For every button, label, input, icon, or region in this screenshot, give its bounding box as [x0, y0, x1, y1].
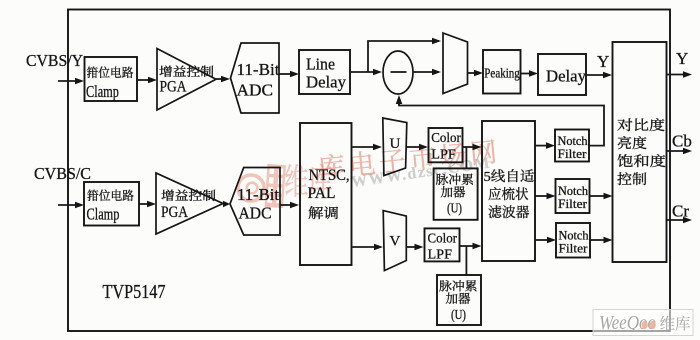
svg-text:(U): (U) — [451, 308, 466, 323]
block 11-Bit ADC (luma) — [231, 43, 280, 113]
block Color LPF (U) — [429, 128, 463, 163]
wire Cr output arrow — [667, 217, 693, 224]
wire Cb output arrow — [667, 148, 693, 155]
svg-text:V: V — [390, 234, 401, 250]
svg-text:加器: 加器 — [441, 183, 466, 201]
wire ADC1 to Line Delay — [279, 71, 299, 78]
svg-text:Y: Y — [676, 49, 688, 68]
amplifier PGA (chroma) 增益控制 — [156, 173, 223, 234]
block NTSC PAL demodulator 解调 — [300, 123, 352, 265]
wire Delay to contrast block — [586, 72, 612, 79]
svg-text:对比度: 对比度 — [617, 115, 665, 135]
svg-text:滤波器: 滤波器 — [488, 202, 530, 222]
watermark WeeQoo box — [593, 310, 693, 336]
wire junction drop to burst accumulator U — [465, 147, 467, 168]
wire PGA2 to ADC2 — [223, 201, 230, 208]
svg-text:PGA: PGA — [160, 79, 187, 96]
amplifier PGA (luma) 增益控制 — [157, 49, 216, 111]
svg-text:Peaking: Peaking — [484, 66, 520, 81]
svg-text:CVBS/Y: CVBS/Y — [26, 51, 83, 70]
wire Color LPF V to comb filter — [460, 243, 482, 250]
svg-text:Cb: Cb — [672, 132, 692, 151]
svg-text:Filter: Filter — [559, 241, 589, 256]
svg-text:TVP5147: TVP5147 — [103, 281, 166, 303]
svg-text:LPF: LPF — [428, 248, 453, 263]
svg-text:箝位电路: 箝位电路 — [87, 186, 134, 204]
wire CVBS/C input arrow — [58, 202, 84, 209]
mux (luma select) — [443, 33, 468, 94]
svg-text:Clamp: Clamp — [87, 205, 120, 224]
svg-text:CVBS/C: CVBS/C — [34, 164, 91, 183]
wire subtractor to mux — [413, 69, 441, 76]
svg-text:饱和度: 饱和度 — [617, 151, 666, 171]
svg-text:PAL: PAL — [308, 185, 336, 202]
wire Notch3 to contrast block — [590, 237, 613, 244]
svg-text:5线自适: 5线自适 — [484, 166, 535, 186]
svg-text:箝位电路: 箝位电路 — [87, 63, 134, 81]
svg-text:Color: Color — [431, 131, 461, 146]
svg-text:Color: Color — [428, 232, 458, 247]
wire NTSC to U demod — [352, 144, 383, 151]
svg-text:LPF: LPF — [431, 148, 456, 163]
svg-text:Line: Line — [306, 55, 335, 74]
wire U to Color LPF (U) — [407, 144, 428, 151]
svg-text:NTSC,: NTSC, — [309, 167, 350, 184]
block Notch Filter 3 — [556, 223, 590, 258]
svg-text:Filter: Filter — [558, 146, 588, 161]
block pulse accumulator U 脉冲累加器 — [434, 168, 478, 219]
block Notch Filter 1 — [555, 130, 589, 162]
svg-text:维库: 维库 — [660, 311, 691, 335]
block 11-Bit ADC (chroma) — [230, 168, 280, 236]
svg-text:WeeQoo: WeeQoo — [599, 312, 656, 334]
svg-text:11-Bit: 11-Bit — [237, 60, 280, 79]
block Delay — [538, 54, 586, 95]
wire CVBS/Y input arrow — [58, 78, 84, 85]
wire mux to Peaking — [468, 70, 484, 77]
block contrast brightness saturation control 对比度亮度饱和度控制 — [613, 42, 667, 262]
wire Notch2 to contrast block — [590, 193, 613, 200]
svg-text:应梳状: 应梳状 — [488, 184, 529, 204]
svg-text:ADC: ADC — [237, 81, 274, 100]
svg-text:增益控制: 增益控制 — [161, 186, 216, 204]
wire comb to Notch 3 — [535, 237, 556, 244]
svg-text:Filter: Filter — [558, 196, 588, 211]
wire Y output arrow — [667, 71, 693, 78]
mixer V — [383, 211, 406, 271]
svg-text:Delay: Delay — [306, 73, 346, 92]
wire comb to Notch 2 — [535, 193, 556, 200]
wire ADC2 to NTSC demod — [280, 202, 299, 209]
block Color LPF (V) — [425, 228, 460, 262]
subtractor node (minus circle) — [383, 51, 413, 94]
svg-text:Y: Y — [597, 52, 609, 71]
wire V to Color LPF (V) — [406, 244, 423, 251]
wire Line Delay to subtractor — [350, 69, 382, 76]
wire clamp1 to PGA1 — [137, 77, 157, 84]
wire bypass branch to mux top — [368, 41, 439, 72]
svg-text:加器: 加器 — [446, 289, 471, 307]
watermark stamp film strip — [265, 164, 286, 208]
svg-text:ADC: ADC — [239, 204, 272, 223]
svg-text:Clamp: Clamp — [86, 82, 119, 101]
svg-text:Cr: Cr — [672, 202, 689, 221]
wire clamp2 to PGA2 — [139, 201, 156, 208]
svg-text:增益控制: 增益控制 — [159, 62, 214, 80]
wire Color LPF U to comb filter — [463, 144, 482, 151]
svg-text:Delay: Delay — [546, 67, 586, 86]
svg-text:11-Bit: 11-Bit — [237, 185, 279, 204]
block clamp (chroma) 箝位电路 — [84, 182, 139, 226]
block 5-line adaptive comb filter 5线自适应梳状滤波器 — [482, 121, 535, 261]
wire Peaking to Delay — [521, 70, 539, 77]
wire comb to Notch 1 — [535, 142, 555, 149]
svg-text:解调: 解调 — [308, 203, 339, 223]
block clamp (luma) 箝位电路 — [85, 57, 138, 101]
svg-text:亮度: 亮度 — [617, 133, 647, 153]
svg-text:PGA: PGA — [161, 204, 188, 221]
block pulse accumulator 2 脉冲累加器 — [437, 275, 481, 325]
block Notch Filter 2 — [556, 179, 590, 213]
wire Notch1 feedback to subtractor — [399, 103, 604, 146]
wire feedback arrow into subtractor — [396, 95, 403, 106]
wire NTSC to V demod — [352, 244, 384, 251]
wire junction drop to burst accumulator 2 — [465, 246, 467, 275]
svg-text:U: U — [390, 136, 401, 152]
block Peaking — [483, 50, 521, 94]
block Line Delay — [299, 50, 350, 94]
mixer U — [383, 118, 407, 176]
svg-text:(U): (U) — [447, 202, 462, 217]
svg-text:控制: 控制 — [617, 169, 647, 189]
wire PGA1 to ADC1 — [216, 76, 230, 83]
watermark stamp circle logo — [238, 175, 264, 201]
